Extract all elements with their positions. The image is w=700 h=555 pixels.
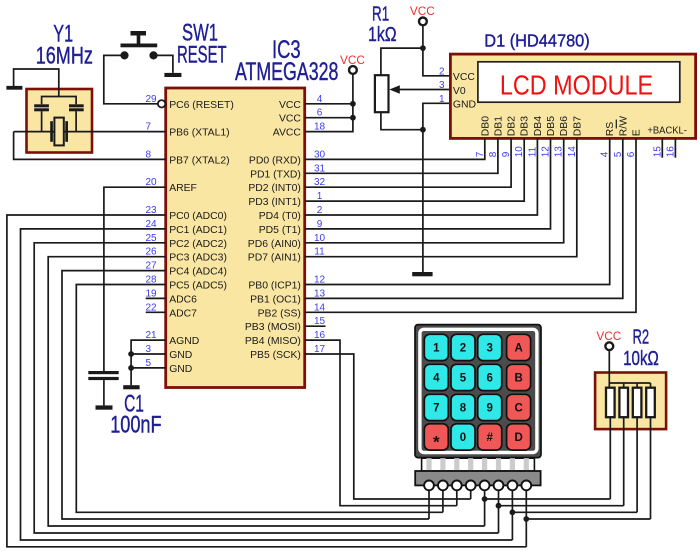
svg-text:PB0 (ICP1): PB0 (ICP1) <box>248 281 301 292</box>
wire XTAL rail to ground <box>14 69 59 97</box>
capacitor CL1 (left load cap) <box>34 104 49 131</box>
pin label VCC pin 2 (LCD) <box>439 66 475 83</box>
pin label PC1 (ADC1) pin 24 (IC left) <box>146 219 227 236</box>
keypad connector pin 6 circle <box>494 481 504 491</box>
svg-text:PD4 (T0): PD4 (T0) <box>259 211 301 222</box>
pin label VCC pin 4 (IC right) <box>279 94 323 111</box>
svg-text:VCC: VCC <box>453 72 475 83</box>
keypad button 4 <box>424 364 448 390</box>
wire R2b bottom <box>623 417 625 506</box>
svg-text:DB5: DB5 <box>546 116 557 136</box>
wire R2c bottom <box>636 417 638 512</box>
pin label DB3 pin 10 (LCD bottom, rotated) <box>514 116 531 158</box>
svg-text:3: 3 <box>486 343 492 355</box>
svg-text:DB1: DB1 <box>493 116 504 136</box>
wire keypad row3 to R2c <box>512 511 637 513</box>
svg-text:VCC: VCC <box>596 329 621 343</box>
pin label ADC7 pin 22 (IC left) <box>146 302 198 319</box>
wire keypad pin8 drop <box>525 490 527 547</box>
svg-text:6: 6 <box>486 373 492 385</box>
svg-text:PC4 (ADC4): PC4 (ADC4) <box>169 267 227 278</box>
keypad button 5 <box>451 364 475 390</box>
svg-text:PD6 (AIN0): PD6 (AIN0) <box>248 239 301 250</box>
keypad connector pin 2 circle <box>438 481 448 491</box>
crystal element Y1 body <box>50 118 68 146</box>
resistor R2b element <box>619 388 628 418</box>
pin label PB5 (SCK) pin 17 (IC right) <box>250 344 325 361</box>
label D1 (HD44780) <box>484 31 589 51</box>
pin label DB0 pin 7 (LCD bottom, rotated) <box>475 116 492 158</box>
svg-text:2: 2 <box>460 343 466 355</box>
keypad button 6 <box>478 364 502 390</box>
keypad connector pin 8 circle <box>521 481 531 491</box>
wire VCC pin6 <box>305 117 353 119</box>
junction keypad pin6 row2 <box>496 503 502 509</box>
label ATMEGA328 <box>235 58 339 86</box>
keypad button # <box>478 424 502 450</box>
pushbutton SW1 symbol <box>120 31 157 60</box>
junction VCC pin6 <box>350 115 356 121</box>
wire R1 wiper to LCD V0 with arrow <box>389 85 450 94</box>
keypad button C <box>507 394 531 420</box>
wire LCD GND down to ground <box>423 103 451 272</box>
ground (AGND) <box>123 385 139 389</box>
pin label VCC pin 6 (IC right) <box>279 108 323 125</box>
svg-text:#: # <box>486 432 493 444</box>
svg-text:9: 9 <box>486 403 492 415</box>
keypad button 9 <box>478 394 502 420</box>
wire ADC6 stub <box>146 297 166 299</box>
wire PD4 to LCD DB4 <box>305 138 538 215</box>
label IC3 <box>272 36 301 64</box>
svg-text:ADC7: ADC7 <box>169 308 197 319</box>
svg-text:8: 8 <box>460 403 467 415</box>
svg-text:100nF: 100nF <box>110 412 161 439</box>
keypad button D <box>507 424 531 450</box>
pin label V0 pin 3 (LCD) <box>439 80 466 97</box>
svg-text:1kΩ: 1kΩ <box>368 24 397 46</box>
pin label R/W pin 5 (LCD bottom, rotated) <box>613 116 630 157</box>
LCD display window <box>478 62 680 102</box>
pin label DB5 pin 12 (LCD bottom, rotated) <box>541 116 558 158</box>
pin label GND pin 3 (IC left) <box>146 344 193 361</box>
svg-text:GND: GND <box>169 364 192 375</box>
label LCD MODULE <box>500 69 653 100</box>
pin label ADC6 pin 19 (IC left) <box>146 288 198 305</box>
pin label PB3 (MOSI) pin 15 (IC right) <box>245 316 326 333</box>
wire keypad pin3 drop <box>456 490 458 506</box>
pin label AREF pin 20 (IC left) <box>146 177 197 194</box>
pin label GND pin 5 (IC left) <box>146 358 193 375</box>
pin label AVCC pin 18 (IC right) <box>273 122 326 139</box>
keypad connector pin 3 circle <box>452 481 462 491</box>
svg-text:PB7 (XTAL2): PB7 (XTAL2) <box>169 155 229 166</box>
wire PB4 to keypad col3 <box>305 340 457 506</box>
wire XTAL top rail to caps <box>42 97 77 105</box>
wire PB3 stub (MOSI) <box>305 325 326 327</box>
wire PB1 to LCD R/W <box>305 138 623 298</box>
label 1kOhm <box>368 24 397 46</box>
svg-text:PB1 (OC1): PB1 (OC1) <box>250 294 301 305</box>
svg-text:R2: R2 <box>632 326 649 348</box>
ground (SW1) <box>164 73 181 77</box>
keypad button * <box>424 424 448 452</box>
keypad connector pin 4 circle <box>466 481 476 491</box>
svg-text:DB6: DB6 <box>559 116 570 136</box>
svg-text:5: 5 <box>460 373 467 385</box>
wire keypad pin2 drop <box>442 490 444 512</box>
wire VCC down to junction <box>422 25 424 48</box>
pin label GND pin 1 (LCD) <box>439 94 476 111</box>
pin label DB7 pin 14 (LCD bottom, rotated) <box>567 116 584 158</box>
svg-text:10kΩ: 10kΩ <box>623 348 659 370</box>
pin label PC5 (ADC5) pin 28 (IC left) <box>146 275 227 292</box>
svg-text:PB6 (XTAL1): PB6 (XTAL1) <box>169 128 229 139</box>
svg-text:PD3 (INT1): PD3 (INT1) <box>248 197 301 208</box>
svg-text:D1 (HD44780): D1 (HD44780) <box>484 31 589 51</box>
pin label PB4 (MISO) pin 16 (IC right) <box>245 330 326 347</box>
svg-text:PC0 (ADC0): PC0 (ADC0) <box>169 211 227 222</box>
wire XTAL2 detour PB7 <box>14 132 166 160</box>
wire VCC to R1 top <box>381 48 423 75</box>
pin label PB6 (XTAL1) pin 7 (IC left) <box>146 122 230 139</box>
junction GND pin3 <box>128 351 134 357</box>
wire keypad row1 to R2a <box>485 498 611 500</box>
wire PC0 keypad bus <box>7 215 526 547</box>
wire PB0 to LCD RS <box>305 138 610 284</box>
svg-text:B: B <box>514 373 522 385</box>
wire R2d bottom <box>650 417 652 519</box>
pin label PC0 (ADC0) pin 23 (IC left) <box>146 205 227 222</box>
svg-text:LCD MODULE: LCD MODULE <box>500 69 653 100</box>
pin label DB1 pin 8 (LCD bottom, rotated) <box>488 116 505 158</box>
pin label PD7 (AIN1) pin 11 (IC right) <box>248 247 325 264</box>
svg-text:0: 0 <box>460 432 466 444</box>
wire PB5 to keypad col4 <box>305 354 471 499</box>
junction R1 top VCC <box>420 45 426 51</box>
svg-text:ATMEGA328: ATMEGA328 <box>235 58 339 86</box>
wire keypad pin5 drop <box>484 490 486 526</box>
wire PD3 to LCD DB3 <box>305 138 525 201</box>
wire keypad pin7 drop <box>511 490 513 540</box>
svg-text:VCC: VCC <box>279 114 301 125</box>
pin label PC6 (RESET) pin 29 (IC left) <box>146 94 234 111</box>
svg-text:R1: R1 <box>372 4 389 26</box>
svg-text:DB0: DB0 <box>480 116 491 136</box>
wire PC5 keypad bus <box>76 285 443 513</box>
wire PC3 keypad bus <box>48 257 484 526</box>
pin label PD1 (TXD) pin 31 (IC right) <box>250 163 325 180</box>
wire PC2 keypad bus <box>34 243 498 533</box>
svg-text:PB3 (MOSI): PB3 (MOSI) <box>245 322 301 333</box>
svg-text:7: 7 <box>433 403 439 415</box>
wire PD2 to LCD DB2 <box>305 138 511 187</box>
wire VCC to LCD VCC pin <box>423 48 451 76</box>
keypad connector pin 1 circle <box>424 481 434 491</box>
svg-text:DB2: DB2 <box>507 116 518 136</box>
resistor R2d element <box>646 388 655 418</box>
wire keypad row4 to R2d <box>526 518 650 520</box>
label SW1 <box>182 20 218 47</box>
svg-text:PC1 (ADC1): PC1 (ADC1) <box>169 225 227 236</box>
pin label PC3 (ADC3) pin 26 (IC left) <box>146 247 227 264</box>
wire PB2 to LCD E <box>305 138 636 312</box>
keypad button 8 <box>451 394 475 420</box>
svg-text:AVCC: AVCC <box>273 128 302 139</box>
wire PD7 to LCD DB7 <box>305 138 577 256</box>
svg-text:VCC: VCC <box>279 100 301 111</box>
wire keypad pin4 drop <box>470 490 472 499</box>
junction GND pin5 <box>128 365 134 371</box>
wire R2a bottom <box>609 417 611 499</box>
wire R1 bottom to GND junction <box>381 112 423 130</box>
junction R1 bottom GND <box>420 127 426 133</box>
keypad connector pin 5 circle <box>480 481 490 491</box>
pin label AGND pin 21 (IC left) <box>146 330 200 347</box>
junction keypad pin5 row1 <box>482 496 488 502</box>
wire SW1 to PC6 reset <box>104 55 158 103</box>
svg-text:ADC6: ADC6 <box>169 294 197 305</box>
label 10kOhm <box>623 348 659 370</box>
svg-text:2: 2 <box>439 66 445 77</box>
resistor R2c element <box>633 388 642 418</box>
svg-text:PB5 (SCK): PB5 (SCK) <box>250 350 301 361</box>
pin label PD5 (T1) pin 9 (IC right) <box>259 219 323 236</box>
ground (crystal) <box>6 86 22 90</box>
wire PC1 keypad bus <box>21 229 513 540</box>
capacitor CL2 (right load cap) <box>69 104 84 131</box>
pin label PC4 (ADC4) pin 27 (IC left) <box>146 261 227 278</box>
wire keypad row2 to R2b <box>499 505 624 507</box>
keypad KP1 body <box>415 325 541 458</box>
svg-text:1: 1 <box>433 343 440 355</box>
svg-text:PD5 (T1): PD5 (T1) <box>259 225 301 236</box>
power VCC symbol (AVCC supply) <box>340 53 365 74</box>
pin label PB0 (ICP1) pin 12 (IC right) <box>248 275 325 292</box>
resistor R2a element <box>606 388 615 418</box>
pin label DB6 pin 13 (LCD bottom, rotated) <box>554 116 571 158</box>
svg-text:3: 3 <box>439 80 445 91</box>
svg-text:DB7: DB7 <box>572 116 583 136</box>
wire PC4 keypad bus <box>62 271 429 519</box>
power VCC symbol (R2 pullups) <box>596 329 621 350</box>
wire ADC7 stub <box>146 311 166 313</box>
pin label E pin 6 (LCD bottom, rotated) <box>626 129 643 157</box>
svg-text:PC6 (RESET): PC6 (RESET) <box>169 100 234 111</box>
node PC6 reset pin open circle <box>158 100 165 107</box>
junction VCC pin4 <box>350 101 356 107</box>
svg-text:RESET: RESET <box>177 41 227 68</box>
keypad connector pin 7 circle <box>508 481 518 491</box>
pin label PB2 (SS) pin 14 (IC right) <box>258 302 326 319</box>
svg-text:A: A <box>514 343 522 355</box>
ground (C1) <box>96 405 113 409</box>
keypad button 3 <box>478 334 502 360</box>
wire keypad pin6 drop <box>498 490 500 533</box>
svg-text:PC3 (ADC3): PC3 (ADC3) <box>169 253 227 264</box>
svg-text:PD7 (AIN1): PD7 (AIN1) <box>248 253 301 264</box>
svg-text:AGND: AGND <box>169 336 199 347</box>
wire backlight stub pin15 <box>661 138 663 157</box>
svg-text:16MHz: 16MHz <box>36 42 93 69</box>
svg-text:RS: RS <box>605 122 616 137</box>
keypad button 7 <box>424 394 448 420</box>
svg-text:DB3: DB3 <box>520 116 531 136</box>
wire VCC to AVCC <box>305 74 353 132</box>
svg-text:*: * <box>433 433 440 452</box>
label 100nF <box>110 412 161 439</box>
capacitor C1 <box>88 371 118 405</box>
LCD module D1 body <box>450 54 695 138</box>
svg-text:PC5 (ADC5): PC5 (ADC5) <box>169 281 227 292</box>
pin label PD4 (T0) pin 2 (IC right) <box>259 205 323 222</box>
ground (LCD GND / R1) <box>412 272 432 276</box>
svg-text:VCC: VCC <box>340 53 365 67</box>
crystal module Y1 box <box>27 89 93 153</box>
wire PD5 to LCD DB5 <box>305 138 551 229</box>
wire AREF to C1 <box>104 187 166 371</box>
svg-text:PD1 (TXD): PD1 (TXD) <box>250 169 301 180</box>
wire SW1 to ground <box>154 55 173 73</box>
pin label PD6 (AIN0) pin 10 (IC right) <box>248 233 326 250</box>
wire PD0 to LCD DB0 <box>305 138 485 159</box>
svg-text:PD2 (INT0): PD2 (INT0) <box>248 183 301 194</box>
svg-text:GND: GND <box>169 350 192 361</box>
svg-text:VCC: VCC <box>410 4 435 18</box>
svg-text:PD0 (RXD): PD0 (RXD) <box>249 155 301 166</box>
pin label PB7 (XTAL2) pin 8 (IC left) <box>146 149 230 166</box>
junction keypad pin7 row3 <box>510 509 516 515</box>
svg-text:PB2 (SS): PB2 (SS) <box>258 308 301 319</box>
wire backlight stub pin16 <box>674 138 676 157</box>
wire XTAL1 line PB6 <box>14 131 166 133</box>
keypad button 1 <box>424 334 448 360</box>
label R1 <box>372 4 389 26</box>
svg-text:1: 1 <box>439 94 445 105</box>
svg-text:V0: V0 <box>453 86 466 97</box>
label RESET <box>177 41 227 68</box>
label 16MHz <box>36 42 93 69</box>
keypad connector bar <box>415 471 540 485</box>
svg-text:AREF: AREF <box>169 183 197 194</box>
wire VCC pin4 <box>305 103 353 105</box>
potentiometer R1 body <box>375 75 389 112</box>
svg-text:E: E <box>632 129 643 136</box>
wire AGND GND GND chain <box>131 340 166 385</box>
label Y1 <box>53 20 73 47</box>
svg-text:+BACKL-: +BACKL- <box>647 125 687 136</box>
keypad button 0 <box>451 424 475 450</box>
pin label PC2 (ADC2) pin 25 (IC left) <box>146 233 227 250</box>
pin label RS pin 4 (LCD bottom, rotated) <box>600 122 617 158</box>
svg-text:4: 4 <box>433 373 440 385</box>
pin label PD0 (RXD) pin 30 (IC right) <box>249 149 326 166</box>
label C1 <box>124 390 144 417</box>
IC U1 body IC3 ATMEGA328 <box>166 88 305 388</box>
wire VCC to R2 rail <box>609 350 650 388</box>
pin label DB2 pin 9 (LCD bottom, rotated) <box>501 116 517 158</box>
keypad button B <box>507 364 531 390</box>
svg-text:D: D <box>514 432 522 444</box>
svg-text:R/W: R/W <box>618 116 629 136</box>
junction keypad pin8 row4 <box>523 516 529 522</box>
wire keypad pin1 drop <box>428 490 430 519</box>
svg-text:GND: GND <box>453 99 476 110</box>
wire PD6 to LCD DB6 <box>305 138 564 242</box>
svg-text:PB4 (MISO): PB4 (MISO) <box>245 336 301 347</box>
keypad button 2 <box>451 334 475 360</box>
svg-text:DB4: DB4 <box>533 116 544 136</box>
label R2 <box>632 326 649 348</box>
keypad button A <box>507 334 531 360</box>
resistor network R2 box <box>595 373 666 430</box>
svg-text:PC2 (ADC2): PC2 (ADC2) <box>169 239 227 250</box>
pin label PB1 (OC1) pin 13 (IC right) <box>250 288 325 305</box>
keypad pin legs <box>422 458 535 471</box>
pin label +BACKL- pins 15 16 (LCD) <box>647 125 687 157</box>
svg-text:C: C <box>514 403 522 415</box>
pin label DB4 pin 11 (LCD bottom, rotated) <box>527 116 544 158</box>
wire PD1 to LCD DB1 <box>305 138 498 173</box>
power VCC symbol (R1/LCD supply) <box>410 4 435 25</box>
pin label PD3 (INT1) pin 1 (IC right) <box>248 191 322 208</box>
pin label PD2 (INT0) pin 32 (IC right) <box>248 177 325 194</box>
